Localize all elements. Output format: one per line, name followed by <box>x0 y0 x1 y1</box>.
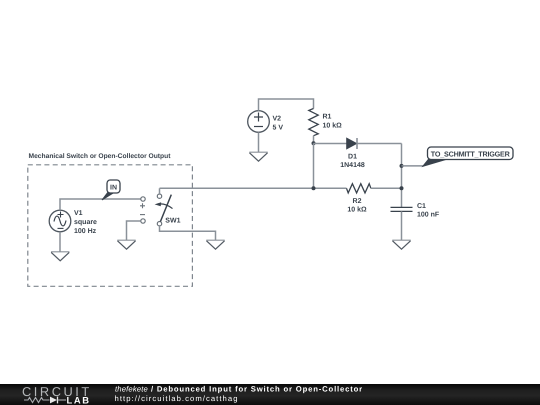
wire terminal - to ground <box>127 221 141 240</box>
svg-text:square: square <box>74 219 97 226</box>
wire switch bottom to ground <box>160 226 216 241</box>
diode D1 <box>340 138 365 169</box>
svg-text:5 V: 5 V <box>273 125 284 132</box>
node junction main line <box>312 186 316 190</box>
svg-text:100 nF: 100 nF <box>417 212 440 219</box>
ground under terminal - <box>117 240 135 249</box>
ground under C1 <box>392 240 410 249</box>
svg-text:D1: D1 <box>348 154 357 161</box>
node junction R2/rail <box>400 186 404 190</box>
wire C1 bottom stem <box>401 211 403 240</box>
wire junction down to main line <box>313 143 315 188</box>
svg-text:http://circuitlab.com/catthag: http://circuitlab.com/catthag <box>115 394 239 403</box>
svg-text:C1: C1 <box>417 203 426 210</box>
wire right rail <box>401 144 403 208</box>
wire to net flag TO_SCHMITT_TRIGGER <box>402 165 424 167</box>
footer bar <box>0 384 540 405</box>
net flag IN <box>102 180 120 200</box>
svg-text:thefekete / Debounced Input fo: thefekete / Debounced Input for Switch o… <box>115 385 363 394</box>
wire V2 top to R1 top <box>259 99 314 111</box>
svg-text:100 Hz: 100 Hz <box>74 228 97 235</box>
svg-text:R2: R2 <box>353 198 362 205</box>
node junction flag tap <box>400 164 404 168</box>
svg-text:1N4148: 1N4148 <box>340 162 365 169</box>
resistor R2 <box>347 184 371 214</box>
wire D1 cathode to rail <box>357 143 402 145</box>
svg-text:SW1: SW1 <box>165 217 180 224</box>
svg-text:R1: R1 <box>323 114 332 121</box>
ground under switch <box>206 240 224 249</box>
svg-text:TO_SCHMITT_TRIGGER: TO_SCHMITT_TRIGGER <box>431 150 511 159</box>
wire main horizontal line <box>160 187 347 189</box>
wire main line to switch top <box>159 188 161 194</box>
voltage source V2 <box>248 111 284 133</box>
CircuitLab logo <box>22 384 92 405</box>
svg-text:10 kΩ: 10 kΩ <box>323 122 343 130</box>
wire V2 bottom stem <box>258 132 260 152</box>
wire R2 right to rail <box>371 187 402 189</box>
net flag TO_SCHMITT_TRIGGER <box>423 147 513 166</box>
svg-text:IN: IN <box>110 184 117 191</box>
svg-text:V2: V2 <box>273 116 282 123</box>
node junction R1/D1 <box>312 141 316 145</box>
svg-text:LAB: LAB <box>67 394 91 405</box>
wire V1 top to terminal <box>60 199 141 210</box>
svg-text:V1: V1 <box>74 210 83 217</box>
switch SW1 <box>155 194 181 226</box>
capacitor C1 <box>391 203 440 219</box>
ground under V1 <box>51 252 69 261</box>
terminal + <box>140 197 145 209</box>
terminal - <box>140 215 145 224</box>
wire V1 bottom stem <box>59 232 61 252</box>
ground under V2 <box>249 152 267 161</box>
footer title text <box>115 385 363 404</box>
svg-text:Mechanical Switch or Open-Coll: Mechanical Switch or Open-Collector Outp… <box>29 153 172 160</box>
voltage source V1 <box>49 210 97 235</box>
annotation box: Mechanical Switch or Open-Collector Output <box>28 153 193 286</box>
wire to D1 anode <box>314 143 347 145</box>
svg-text:10 kΩ: 10 kΩ <box>347 206 367 214</box>
resistor R1 <box>309 109 342 143</box>
